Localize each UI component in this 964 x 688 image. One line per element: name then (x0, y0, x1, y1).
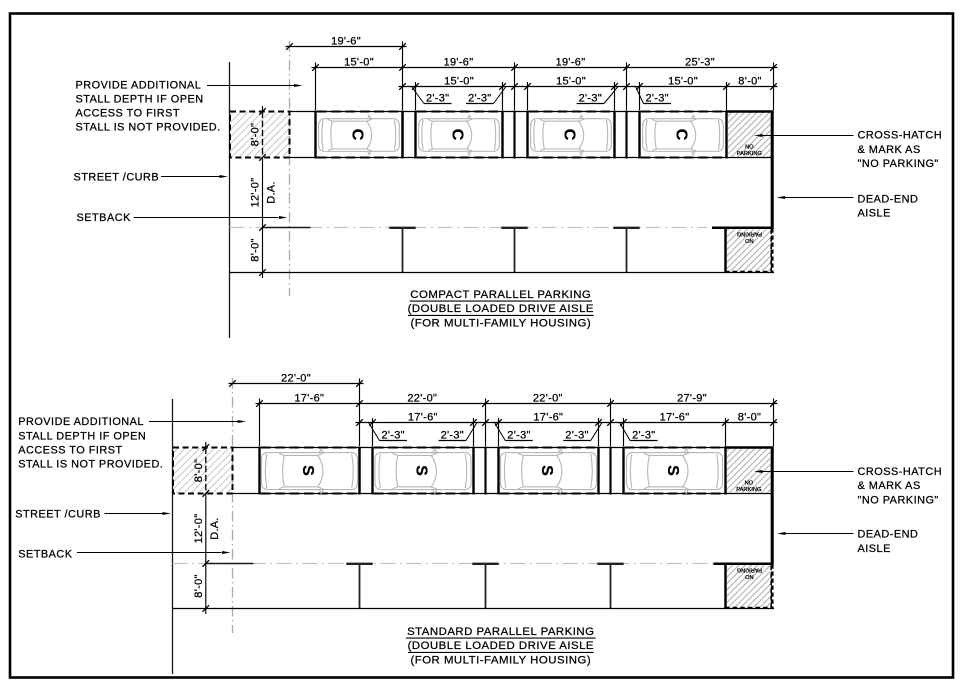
standard diagram: stall 4 left line (622, 447, 624, 495)
svg-text:NO: NO (745, 237, 754, 243)
standard diagram: stall 3 top dashed stripe (500, 446, 597, 448)
svg-text:S: S (538, 465, 555, 476)
svg-text:STANDARD PARALLEL PARKING: STANDARD PARALLEL PARKING (407, 626, 594, 638)
standard diagram: stall 4 bottom dashed stripe (625, 492, 724, 494)
svg-text:SETBACK: SETBACK (18, 548, 73, 560)
compact diagram: lower no-parking left edge (724, 228, 727, 273)
standard diagram: extension line x=623.5 (623, 418, 625, 446)
svg-text:C: C (348, 129, 365, 141)
compact diagram: parking band top edge (290, 111, 774, 113)
compact diagram: stall 4 right line (725, 111, 727, 159)
compact diagram: no-parking area top edge (thick) (726, 110, 774, 113)
svg-text:22'-0": 22'-0" (533, 393, 563, 405)
compact diagram: stall 3 bottom dashed stripe (529, 156, 613, 158)
compact diagram: aisle centerline (dash-dot) (230, 227, 708, 229)
svg-text:27'-9": 27'-9" (677, 393, 707, 405)
standard diagram: bay divider line 3 (609, 447, 611, 495)
svg-text:STREET /CURB: STREET /CURB (15, 509, 101, 521)
svg-text:15'-0": 15'-0" (668, 76, 698, 88)
standard diagram: extension line x=259.5 (259, 399, 261, 447)
svg-text:(DOUBLE LOADED DRIVE AISLE: (DOUBLE LOADED DRIVE AISLE (408, 640, 594, 652)
compact diagram: car 2 (C) (419, 115, 500, 154)
svg-text:NO: NO (745, 573, 754, 579)
svg-text:CROSS-HATCH: CROSS-HATCH (858, 130, 943, 142)
svg-text:C: C (560, 129, 577, 141)
svg-text:8'-0": 8'-0" (250, 123, 262, 146)
standard diagram: dim row A line (22&#39;-0&quot;) (229, 383, 364, 385)
compact diagram: title (408, 289, 594, 330)
compact diagram: lower stall T-marker 3 (613, 228, 639, 273)
standard diagram: leader for CROSS-HATCH (762, 471, 854, 473)
compact diagram: stall 3 top dashed stripe (529, 110, 613, 112)
standard diagram: dim row C line (356, 422, 778, 424)
standard diagram: extension line x=610.5 (610, 399, 612, 447)
standard diagram: title (407, 626, 594, 667)
svg-text:19'-6": 19'-6" (331, 36, 361, 48)
compact diagram: dim row C line (399, 86, 778, 88)
svg-text:AISLE: AISLE (858, 543, 891, 555)
compact diagram: NO PARKING label (lower, rotated) (737, 231, 762, 244)
standard diagram: left vertical dimension line (205, 442, 207, 448)
svg-text:8'-0": 8'-0" (738, 76, 761, 88)
svg-text:2'-3": 2'-3" (507, 429, 530, 441)
standard diagram: leader for note (149, 421, 238, 423)
standard diagram: stall 1 bottom dashed stripe (261, 492, 358, 494)
standard diagram: no-parking area top edge (thick) (725, 446, 774, 449)
compact diagram: lower stall T-marker 1 (389, 228, 415, 273)
compact diagram: dim row B line (312, 67, 778, 69)
compact diagram: bay divider line 1 (401, 111, 403, 159)
svg-text:PARKING: PARKING (737, 151, 762, 157)
standard diagram: stall 4 right line (724, 447, 726, 495)
svg-text:ACCESS TO FIRST: ACCESS TO FIRST (18, 444, 123, 456)
compact diagram: no-parking hatched area (upper right) (728, 112, 771, 157)
svg-text:& MARK AS: & MARK AS (858, 144, 921, 156)
compact diagram: label CROSS-HATCH & MARK AS "NO PARKING" (858, 130, 943, 171)
standard diagram: parking band bottom edge (233, 493, 774, 495)
svg-text:22'-0": 22'-0" (407, 393, 437, 405)
compact diagram: car 3 (C) (531, 115, 612, 154)
svg-text:S: S (664, 465, 681, 476)
compact diagram: bay divider line 2 (513, 111, 515, 159)
compact diagram: lower no-parking area top bar (712, 227, 774, 230)
svg-text:PROVIDE ADDITIONAL: PROVIDE ADDITIONAL (18, 416, 144, 428)
svg-text:22'-0": 22'-0" (281, 373, 311, 385)
svg-text:17'-6": 17'-6" (408, 412, 438, 424)
compact diagram: extension line x=626.5 (626, 63, 628, 111)
standard diagram: lower stall T-marker 3 (597, 564, 623, 609)
compact diagram: open-access hatch dashed border (230, 112, 290, 158)
standard diagram: car 4 (S) (626, 449, 722, 494)
compact diagram: dim label 2'-3" (412, 87, 424, 104)
compact diagram: NO PARKING label (upper) (737, 144, 762, 157)
standard diagram: lower no-parking hatched fill (727, 565, 771, 607)
svg-text:AISLE: AISLE (858, 208, 891, 220)
svg-text:(DOUBLE LOADED DRIVE AISLE: (DOUBLE LOADED DRIVE AISLE (408, 303, 594, 315)
standard diagram: dead-end wall (right, dashed lower part) (771, 565, 774, 609)
svg-text:S: S (299, 465, 316, 476)
compact diagram: extension line x=639.5 (639, 82, 641, 110)
standard diagram: label CROSS-HATCH & MARK AS "NO PARKING" (858, 466, 943, 507)
compact diagram: lower stall T-marker 2 (501, 228, 527, 273)
compact diagram: dim label 2'-3" (636, 87, 644, 104)
compact diagram: extension line x=514.5 (514, 63, 516, 111)
standard diagram: parking band top edge (233, 447, 774, 449)
standard diagram: stall 3 right line (597, 447, 599, 495)
svg-text:(FOR MULTI-FAMILY HOUSING): (FOR MULTI-FAMILY HOUSING) (410, 318, 591, 330)
compact diagram: extension line x=614.5 (614, 82, 616, 110)
svg-text:17'-6": 17'-6" (660, 412, 690, 424)
compact diagram: bottom street edge line (230, 272, 775, 274)
svg-text:& MARK AS: & MARK AS (858, 480, 921, 492)
compact diagram: stall 3 left line (526, 111, 528, 159)
standard diagram: stall 3 bottom dashed stripe (500, 492, 597, 494)
svg-text:2'-3": 2'-3" (565, 429, 588, 441)
standard diagram: dim row B line (256, 403, 778, 405)
standard diagram: lower stall row start segment (206, 563, 254, 565)
standard diagram: stall 2 top dashed stripe (374, 446, 472, 448)
svg-text:PARKING: PARKING (737, 231, 762, 237)
compact diagram: note PROVIDE ADDITIONAL STALL DEPTH (76, 79, 221, 133)
compact diagram: lower no-parking hatched fill (727, 229, 771, 271)
standard diagram: extension line x=372.5 (372, 418, 374, 446)
compact diagram: stall 2 top dashed stripe (417, 110, 501, 112)
svg-text:2'-3": 2'-3" (632, 429, 655, 441)
standard diagram: car 2 (S) (375, 449, 471, 494)
standard diagram: stall 1 left line (258, 447, 260, 495)
svg-text:8'-0": 8'-0" (193, 459, 205, 482)
compact diagram: extension line x=726.5 (726, 82, 728, 110)
standard diagram: label DEAD-END AISLE (858, 529, 919, 555)
standard diagram: extension line x=485.5 (485, 399, 487, 447)
svg-text:C: C (672, 129, 689, 141)
svg-text:S: S (412, 465, 429, 476)
svg-text:19'-6": 19'-6" (556, 57, 586, 69)
svg-text:2'-3": 2'-3" (579, 92, 602, 104)
svg-text:STALL IS NOT PROVIDED.: STALL IS NOT PROVIDED. (76, 122, 221, 134)
compact diagram: dim label 2'-3" (604, 87, 618, 104)
compact diagram: stall 2 right line (501, 111, 503, 159)
svg-text:D.A.: D.A. (266, 181, 278, 204)
standard diagram: aisle centerline (dash-dot) (173, 563, 714, 565)
compact diagram: extension line x=527.5 (527, 82, 529, 110)
compact diagram: lower no-parking dashed right/bottom edge (726, 230, 772, 272)
standard diagram: extension line x=498.5 (498, 418, 500, 446)
standard diagram: dim label 2'-3" (620, 423, 631, 441)
svg-text:SETBACK: SETBACK (77, 212, 132, 224)
svg-text:PARKING: PARKING (736, 487, 761, 493)
svg-text:DEAD-END: DEAD-END (858, 193, 919, 205)
standard diagram: leader for DEAD-END AISLE (785, 533, 854, 535)
svg-text:8'-0": 8'-0" (738, 412, 761, 424)
compact diagram: stall 4 top dashed stripe (641, 110, 725, 112)
compact diagram: stall 2 left line (414, 111, 416, 159)
svg-text:2'-3": 2'-3" (381, 429, 404, 441)
compact diagram: dead-end wall (right, solid part) (771, 111, 774, 229)
standard diagram: NO PARKING label (upper) (736, 480, 761, 493)
svg-text:D.A.: D.A. (209, 517, 221, 540)
compact diagram: dim label 2'-3" (494, 87, 506, 104)
standard diagram: stall 2 left line (371, 447, 373, 495)
svg-text:STALL IS NOT PROVIDED.: STALL IS NOT PROVIDED. (18, 459, 163, 471)
standard diagram: extension line x=598.5 (598, 418, 600, 446)
svg-text:15'-0": 15'-0" (444, 76, 474, 88)
standard diagram: open-access hatch dashed border (173, 448, 233, 494)
compact diagram: leader for SETBACK (134, 217, 279, 219)
standard diagram: car 3 (S) (500, 449, 596, 494)
compact diagram: leader for note (207, 85, 295, 87)
standard diagram: no-parking hatched area (upper right) (727, 448, 771, 493)
svg-text:"NO PARKING": "NO PARKING" (858, 158, 939, 170)
svg-text:12'-0": 12'-0" (193, 514, 205, 544)
compact diagram: stall 3 right line (613, 111, 615, 159)
svg-text:ACCESS TO FIRST: ACCESS TO FIRST (76, 108, 181, 120)
compact diagram: stall 2 bottom dashed stripe (417, 156, 501, 158)
standard diagram: extension line x=473.5 (473, 418, 475, 446)
compact diagram: parking band bottom edge (290, 157, 774, 159)
compact diagram: dead-end wall (right, dashed lower part) (771, 229, 774, 273)
standard diagram: dim label 2'-3" (591, 423, 602, 441)
svg-text:25'-3": 25'-3" (685, 57, 715, 69)
compact diagram: extension line x=402.5 (402, 42, 404, 111)
standard diagram: dim label 2'-3" (466, 423, 477, 441)
compact diagram: bay divider line 3 (625, 111, 627, 159)
compact diagram: stall 4 left line (638, 111, 640, 159)
compact diagram: label DEAD-END AISLE (858, 193, 919, 219)
compact diagram: open-access hatched area (left) (230, 112, 289, 157)
svg-text:CROSS-HATCH: CROSS-HATCH (858, 466, 943, 478)
svg-text:STALL DEPTH IF OPEN: STALL DEPTH IF OPEN (18, 430, 146, 442)
svg-text:COMPACT PARALLEL PARKING: COMPACT PARALLEL PARKING (410, 289, 591, 301)
standard diagram: stall 1 top dashed stripe (261, 446, 358, 448)
standard diagram: bay divider line 2 (484, 447, 486, 495)
svg-text:19'-6": 19'-6" (444, 57, 474, 69)
standard diagram: stall 4 top dashed stripe (625, 446, 724, 448)
standard diagram: extension line x=359.5 (359, 379, 361, 447)
standard diagram: extension line x=773.5 (773, 399, 775, 447)
standard diagram: leader for STREET /CURB (105, 513, 163, 515)
compact diagram: lower stall row start segment (263, 227, 311, 229)
compact diagram: car 1 (C) (319, 115, 400, 154)
standard diagram: dead-end wall (right, solid part) (771, 447, 774, 565)
standard diagram: setback line (grey dash-dot) (232, 378, 234, 633)
compact diagram: extension line x=502.5 (502, 82, 504, 110)
svg-text:C: C (448, 129, 465, 141)
standard diagram: open-access hatched area (left) (173, 448, 232, 493)
standard diagram: lower no-parking left edge (724, 564, 727, 609)
svg-text:8'-0": 8'-0" (193, 574, 205, 597)
svg-text:NO: NO (745, 480, 754, 486)
svg-text:2'-3": 2'-3" (468, 92, 491, 104)
standard diagram: NO PARKING label (lower, rotated) (737, 567, 762, 580)
svg-text:2'-3": 2'-3" (441, 429, 464, 441)
compact diagram: extension line x=773.5 (773, 63, 775, 111)
standard diagram: stall 2 right line (472, 447, 474, 495)
compact diagram: stall 1 left line (314, 111, 316, 159)
compact diagram: stall 1 right line (401, 111, 403, 159)
compact diagram: stall 1 bottom dashed stripe (317, 156, 401, 158)
standard diagram: car 1 (S) (261, 449, 357, 494)
svg-text:DEAD-END: DEAD-END (858, 529, 919, 541)
svg-text:2'-3": 2'-3" (645, 92, 668, 104)
compact diagram: extension line x=315.5 (315, 63, 317, 111)
svg-text:PROVIDE ADDITIONAL: PROVIDE ADDITIONAL (76, 79, 202, 91)
svg-text:12'-0": 12'-0" (250, 178, 262, 208)
standard diagram: dim label 2'-3" (495, 423, 506, 441)
compact diagram: car 4 (C) (643, 115, 724, 154)
svg-text:17'-6": 17'-6" (294, 393, 324, 405)
standard diagram: bottom street edge line (173, 608, 775, 610)
compact diagram: extension line x=415.5 (415, 82, 417, 110)
svg-text:15'-0": 15'-0" (556, 76, 586, 88)
standard diagram: lower no-parking area top bar (714, 563, 774, 566)
svg-text:"NO PARKING": "NO PARKING" (858, 495, 939, 507)
standard diagram: leader for SETBACK (77, 552, 222, 554)
svg-text:2'-3": 2'-3" (426, 92, 449, 104)
standard diagram: stall 1 right line (358, 447, 360, 495)
compact diagram: stall 1 top dashed stripe (317, 110, 401, 112)
standard diagram: stall 2 bottom dashed stripe (374, 492, 472, 494)
svg-text:STREET /CURB: STREET /CURB (74, 171, 160, 183)
standard diagram: lower no-parking dashed right/bottom edge (726, 566, 772, 608)
standard diagram: dim label 2'-3" (369, 423, 380, 441)
svg-text:15'-0": 15'-0" (344, 57, 374, 69)
standard diagram: bay divider line 1 (358, 447, 360, 495)
compact diagram: leader for STREET /CURB (161, 176, 220, 178)
compact diagram: stall 4 bottom dashed stripe (641, 156, 725, 158)
svg-text:(FOR MULTI-FAMILY HOUSING): (FOR MULTI-FAMILY HOUSING) (410, 655, 591, 667)
compact diagram: setback line (grey dash-dot) (289, 41, 291, 296)
svg-text:NO: NO (745, 144, 754, 150)
compact diagram: dim row A line (19&#39;-6&quot;) (286, 46, 407, 48)
standard diagram: lower stall T-marker 2 (472, 564, 498, 609)
svg-text:17'-6": 17'-6" (533, 412, 563, 424)
standard diagram: street/curb line (172, 399, 174, 674)
standard diagram: lower stall T-marker 1 (346, 564, 372, 609)
standard diagram: extension line x=725.5 (725, 418, 727, 446)
compact diagram: street/curb line (229, 62, 231, 338)
standard diagram: stall 3 left line (497, 447, 499, 495)
svg-text:STALL DEPTH IF OPEN: STALL DEPTH IF OPEN (76, 93, 204, 105)
compact diagram: leader for DEAD-END AISLE (785, 197, 854, 199)
svg-text:8'-0": 8'-0" (250, 238, 262, 261)
svg-text:PARKING: PARKING (737, 567, 762, 573)
standard diagram: note PROVIDE ADDITIONAL STALL DEPTH (18, 416, 163, 470)
compact diagram: leader for CROSS-HATCH (762, 135, 854, 137)
compact diagram: left vertical dimension line (262, 106, 264, 112)
